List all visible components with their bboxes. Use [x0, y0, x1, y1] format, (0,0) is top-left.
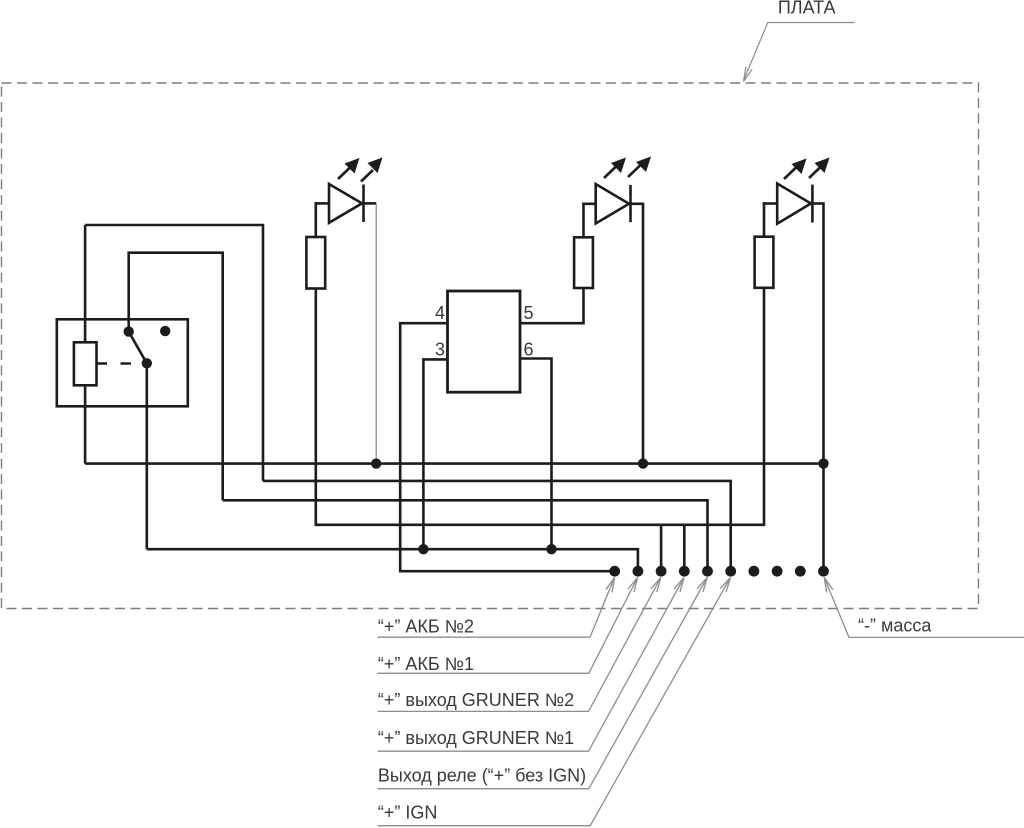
wire: pin 4 to АКБ2 dot: [400, 323, 615, 571]
svg-text:“+” выход GRUNER №2: “+” выход GRUNER №2: [378, 690, 574, 710]
wire: АКБ1 / switch bus: [147, 549, 638, 571]
wire: D2 cathode down to ground net: [642, 203, 645, 464]
wire: drop to pin 3 dot: [660, 525, 663, 571]
svg-text:“+” IGN: “+” IGN: [378, 802, 438, 822]
wire: armature down to АКБ1 net: [146, 363, 149, 549]
svg-text:“+” АКБ №2: “+” АКБ №2: [378, 616, 474, 636]
wire: relay output bus: [223, 500, 708, 571]
wire: pin 6 down to switch net: [520, 359, 552, 550]
svg-text:5: 5: [524, 303, 534, 323]
node: D3 cathode junction: [818, 458, 828, 468]
resistor R1: [306, 237, 325, 289]
wire: drop to pin 4 dot: [683, 525, 686, 571]
svg-text:6: 6: [524, 340, 534, 360]
LED D2 emission arrows: [604, 157, 651, 179]
optocoupler U1: [448, 291, 521, 392]
board outline (dashed): [2, 83, 979, 609]
relay mech link (dashed): [97, 362, 142, 364]
wire: coil lead through relay: [84, 225, 87, 464]
wire: ground bus: [85, 462, 823, 465]
resistor R2: [574, 237, 593, 288]
LED D2: [582, 184, 643, 224]
LED D1 emission arrows: [338, 158, 383, 182]
wire: D1 cathode down to ground net (thin): [375, 203, 377, 463]
LED D3 emission arrows: [784, 158, 830, 180]
relay switch arm: [129, 332, 147, 364]
svg-text:4: 4: [435, 303, 445, 323]
connector pads row: [609, 566, 829, 577]
leader to board: [744, 23, 855, 80]
svg-text:ПЛАТА: ПЛАТА: [778, 0, 836, 18]
node: fixed contact: [160, 326, 170, 336]
resistor R3: [755, 237, 774, 288]
node: pin3 junction: [418, 544, 428, 554]
svg-text:“+” выход GRUNER №1: “+” выход GRUNER №1: [378, 728, 574, 748]
relay K1 box: [57, 319, 188, 406]
wire: switch common loop: [129, 253, 223, 501]
wire: R3 bottom down and left to GRUNER1 drop: [684, 288, 764, 525]
wire: R2 bottom to pin 5 of U1: [520, 288, 584, 323]
node: D1 cathode junction: [371, 458, 381, 468]
wire: R1 bottom down and right to GRUNER2 drop: [316, 289, 685, 525]
svg-text:“+” АКБ №1: “+” АКБ №1: [378, 654, 474, 674]
wire: D3 cathode down to pin row (masса): [822, 202, 825, 571]
node: armature pivot: [142, 358, 152, 368]
wire: IGN bus: [263, 481, 731, 571]
svg-text:Выход реле (“+” без IGN): Выход реле (“+” без IGN): [378, 765, 586, 785]
node: D2 cathode junction: [638, 458, 648, 468]
wire: coil top loop: [85, 225, 263, 481]
wire: D3 anode to R3: [763, 202, 766, 237]
relay coil: [74, 342, 97, 385]
svg-text:“-” масса: “-” масса: [858, 616, 932, 636]
wire: pin 3 down to switch net: [423, 359, 447, 549]
LED D3: [763, 184, 824, 224]
svg-text:3: 3: [435, 340, 445, 360]
wire: D2 anode to R2: [582, 203, 585, 238]
LED D1: [315, 184, 377, 223]
node: switch common: [124, 326, 134, 336]
wire: D1 anode to R1: [314, 202, 317, 237]
node: pin6 junction: [546, 544, 556, 554]
